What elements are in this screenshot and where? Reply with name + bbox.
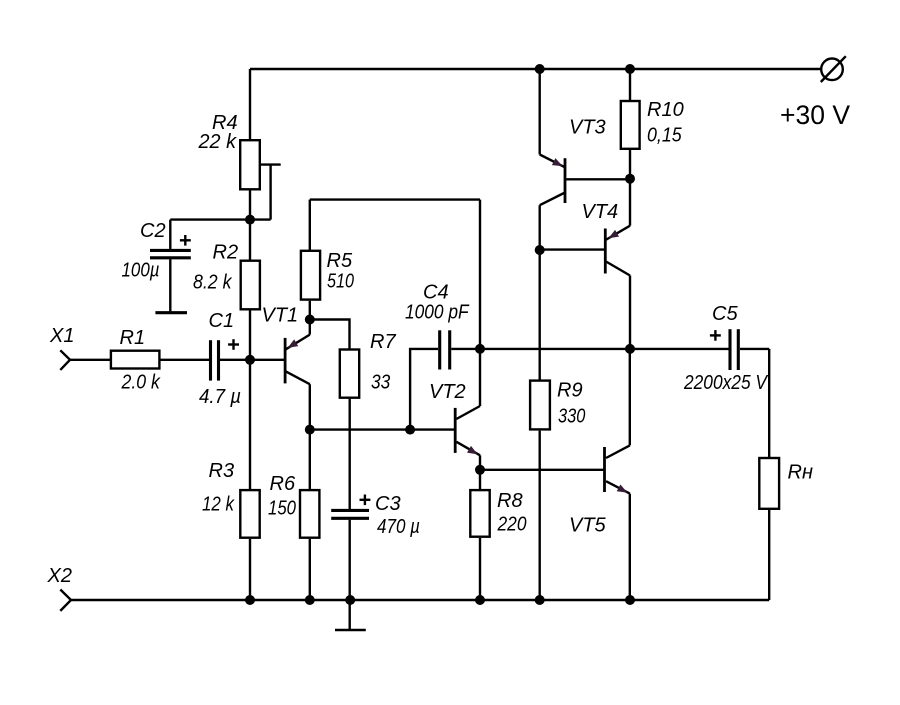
svg-text:VT1: VT1 (262, 305, 299, 327)
connector X1 (60, 350, 70, 370)
wire R4 tap (261, 163, 281, 165)
node rail-R3 (245, 595, 255, 605)
wire R8 bottom lead (479, 538, 481, 600)
transistor VT2 (455, 406, 480, 470)
node L (535, 245, 545, 255)
resistor R6 (300, 490, 319, 538)
node A (245, 215, 255, 225)
node D (305, 425, 315, 435)
wire VT5 emitter down (629, 494, 631, 600)
node H (625, 344, 635, 354)
plus C1 (228, 339, 239, 350)
wire X1 to R1 (70, 359, 110, 361)
node rail-C3 (345, 595, 355, 605)
capacitor C3 (331, 510, 369, 600)
resistor R5 (301, 251, 320, 300)
svg-text:22 k: 22 k (198, 131, 237, 153)
svg-text:C2: C2 (140, 220, 166, 242)
svg-text:R1: R1 (120, 327, 146, 349)
transistor VT3 (540, 69, 630, 205)
svg-text:C3: C3 (375, 493, 401, 515)
svg-text:R9: R9 (557, 380, 583, 402)
svg-text:12 k: 12 k (202, 494, 235, 516)
svg-text:33: 33 (371, 372, 390, 394)
svg-text:VT4: VT4 (582, 201, 619, 223)
wire R9 bottom lead (539, 431, 541, 600)
wire R5 bottom lead (309, 301, 311, 320)
svg-text:R5: R5 (327, 250, 353, 272)
resistor R7 (340, 350, 359, 398)
ground (335, 600, 366, 630)
wire R10 top lead (629, 69, 631, 100)
node rail-R9 (535, 595, 545, 605)
resistor R3 (240, 490, 259, 538)
svg-text:R7: R7 (370, 331, 396, 353)
wire VT3 collector down (539, 205, 541, 250)
svg-text:0,15: 0,15 (647, 125, 682, 147)
svg-text:R2: R2 (213, 242, 239, 264)
svg-text:510: 510 (327, 270, 354, 292)
node G (475, 465, 485, 475)
node E (405, 425, 415, 435)
wire R7 to C3 (349, 399, 351, 510)
transistor VT1 (285, 320, 310, 385)
wire node C to R7 (310, 320, 350, 350)
resistor R2 (249, 220, 251, 260)
svg-text:R10: R10 (647, 99, 684, 121)
wire R4 top lead (249, 69, 251, 140)
svg-text:100µ: 100µ (122, 260, 160, 282)
wire VT1 collector down (309, 384, 311, 429)
resistor R1 (111, 351, 159, 369)
svg-text:4.7 µ: 4.7 µ (199, 386, 241, 408)
node rail-VT5 (625, 595, 635, 605)
plus C5 (710, 330, 721, 341)
svg-text:C1: C1 (209, 310, 235, 332)
wire node A horizontal (170, 218, 270, 220)
wire C1 to VT1 base (220, 359, 284, 361)
svg-text:VT2: VT2 (429, 381, 466, 403)
capacitor C5 (730, 329, 769, 370)
wire VT5 collector up (629, 349, 631, 446)
resistor R10 (621, 101, 640, 149)
wire R3 top lead (249, 360, 251, 490)
resistor RH (759, 458, 779, 509)
wire output (480, 348, 729, 350)
wire R6 top lead (309, 430, 311, 490)
transistor VT5 (605, 445, 630, 493)
wire RH bottom lead (768, 510, 770, 600)
node C (305, 315, 315, 325)
svg-text:220: 220 (497, 514, 527, 536)
node rail-R6 (305, 595, 315, 605)
node rail-R10 (625, 64, 635, 74)
wire bootstrap top (310, 198, 480, 200)
wire node G to VT5 base (480, 469, 604, 471)
svg-text:2200x25 V: 2200x25 V (683, 372, 768, 394)
svg-text:2.0 k: 2.0 k (121, 372, 161, 394)
plus C2 (180, 235, 191, 246)
wire emitter bus (310, 428, 454, 430)
wire R2 bottom lead (249, 311, 251, 361)
wire R9 top lead (539, 250, 541, 380)
svg-text:+30 V: +30 V (780, 100, 850, 130)
capacitor C1 (211, 340, 219, 380)
svg-text:R8: R8 (497, 490, 523, 512)
resistor R4 (240, 140, 260, 189)
wire R10 bottom lead (629, 150, 631, 179)
wire VT4 emitter up (629, 179, 631, 226)
svg-text:X1: X1 (49, 325, 74, 347)
svg-text:C4: C4 (423, 282, 449, 304)
wire VT4 collector down (629, 276, 631, 349)
svg-text:330: 330 (558, 406, 585, 428)
wire R5 top lead (309, 200, 311, 250)
node F (475, 344, 485, 354)
svg-text:C5: C5 (712, 303, 738, 325)
svg-text:X2: X2 (47, 565, 72, 587)
svg-text:VT5: VT5 (569, 515, 607, 537)
svg-text:Rн: Rн (788, 462, 813, 484)
wire bottom rail (71, 599, 769, 601)
wire VT2 collector up (479, 200, 481, 406)
svg-text:VT3: VT3 (569, 117, 606, 139)
wire R4 bottom lead (249, 190, 251, 220)
wire C5 to RH (768, 349, 770, 458)
node B (245, 355, 255, 365)
wire R6 bottom lead (309, 539, 311, 600)
svg-text:150: 150 (268, 498, 296, 520)
svg-text:R3: R3 (209, 460, 235, 482)
capacitor C4 (410, 330, 480, 429)
resistor R9 (530, 381, 550, 430)
node rail-VT3 (535, 64, 545, 74)
svg-text:R6: R6 (270, 473, 296, 495)
capacitor C2 (150, 220, 191, 313)
plus C3 (360, 495, 371, 506)
node rail-R8 (475, 595, 485, 605)
connector X2 (60, 590, 71, 611)
node K (625, 174, 635, 184)
wire R3 bottom lead (249, 539, 251, 600)
svg-text:470 µ: 470 µ (377, 516, 420, 538)
svg-text:8.2 k: 8.2 k (193, 272, 232, 294)
wire R8 top lead (479, 470, 481, 490)
terminal +30V (821, 56, 846, 82)
wire R1 to C1 (160, 359, 209, 361)
resistor R8 (470, 490, 489, 537)
transistor VT4 (540, 226, 630, 276)
wire top rail +30V (250, 68, 821, 70)
svg-text:1000 pF: 1000 pF (405, 301, 470, 323)
